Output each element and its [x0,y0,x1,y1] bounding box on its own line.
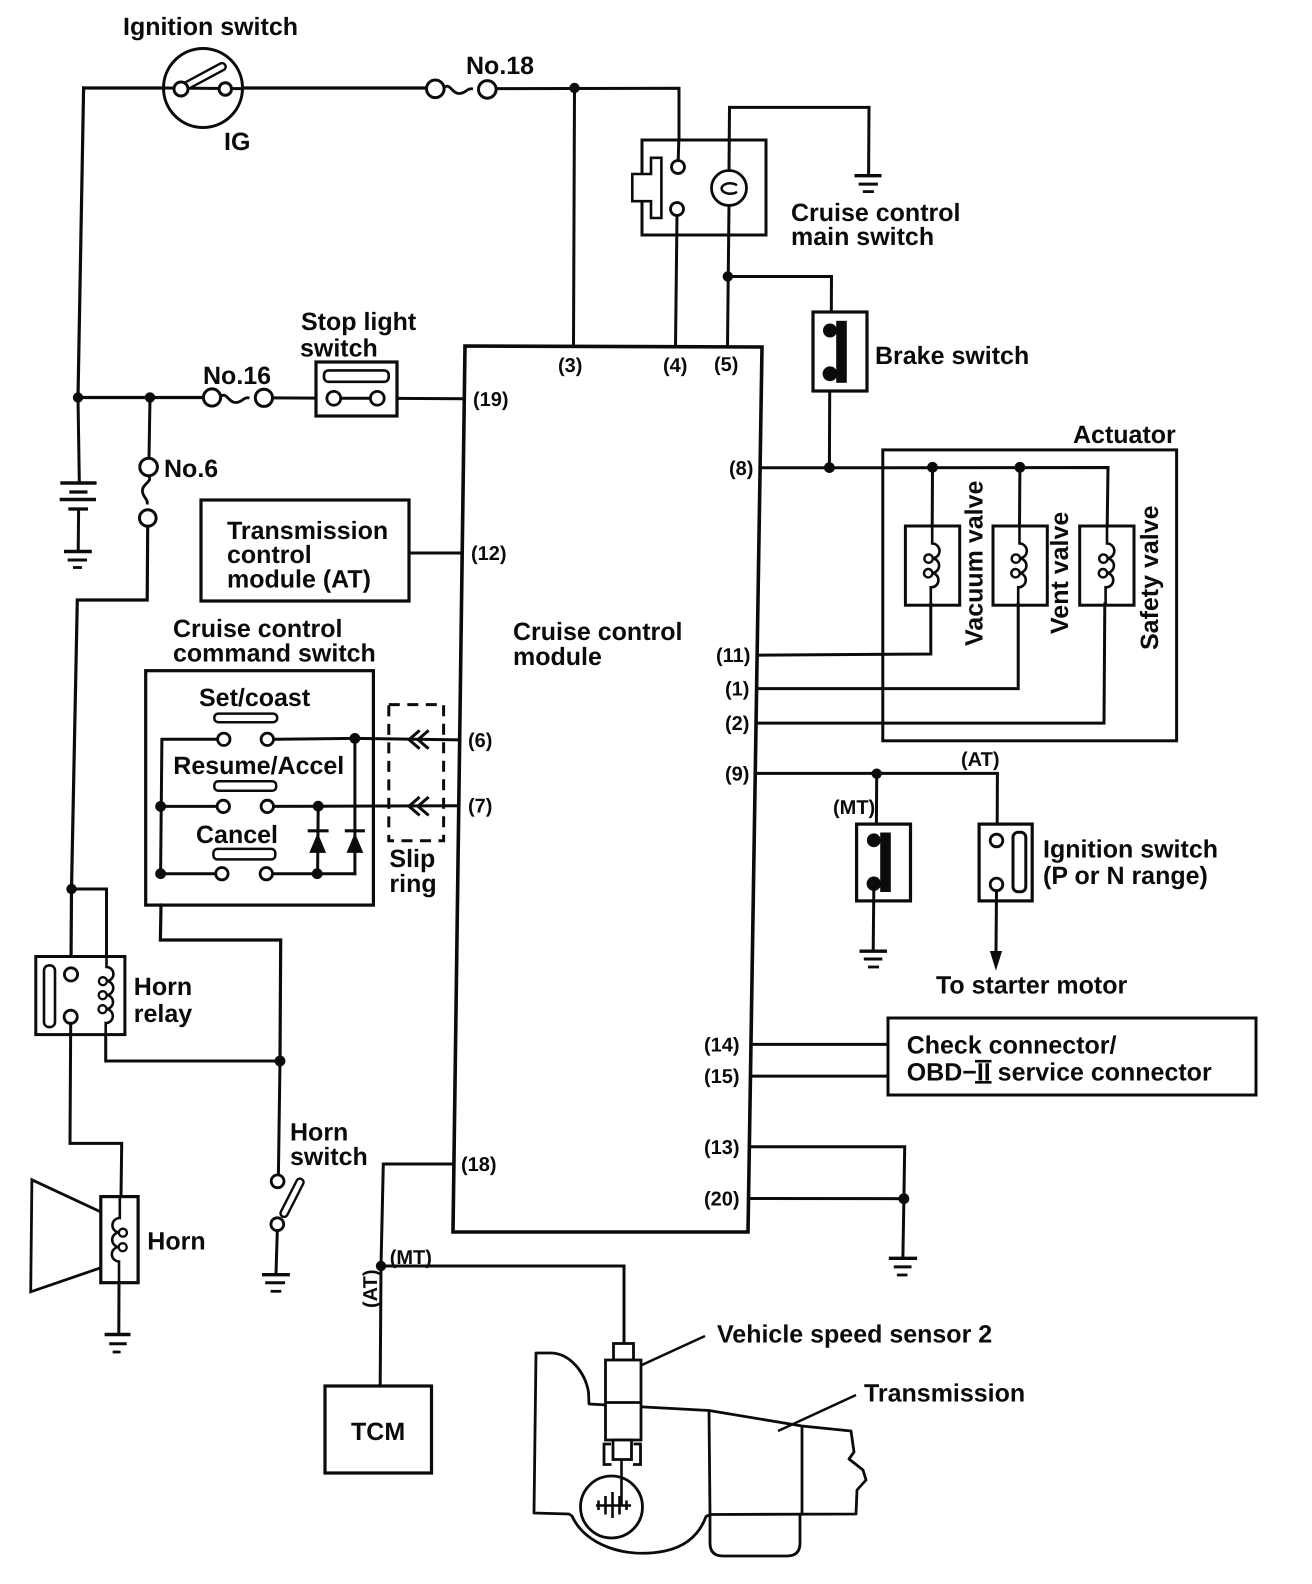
svg-text:relay: relay [134,1000,192,1028]
wire resume/accel row [161,805,224,808]
svg-text:(11): (11) [716,645,750,667]
battery [60,483,97,551]
resume/accel contacts [217,800,229,812]
wire pin 11 to vacuum valve [757,604,931,655]
svg-text:Vehicle speed sensor 2: Vehicle speed sensor 2 [717,1321,992,1349]
wire bus to horn relay contact [69,889,73,968]
svg-text:To starter motor: To starter motor [936,972,1127,1000]
node cancel diode1 junction [312,868,323,879]
vehicle speed sensor body [604,1344,641,1506]
wire vacuum valve feed drop [931,467,934,527]
wire AT branch to TCM [379,1266,383,1386]
wire No.16 row [78,396,204,399]
transmission gear circle [581,1476,643,1538]
transmission oil pan [710,1515,800,1557]
wire MT branch drop [875,774,878,824]
clutch switch (MT) [857,824,911,901]
wire pin 14 [751,1043,888,1046]
node diode1 top junction [313,801,324,812]
svg-text:(3): (3) [558,355,582,377]
node bus cancel junction [155,868,166,879]
wire No.6 branch drop [149,397,150,458]
transmission outline [534,1353,866,1553]
fuse No.16 [203,389,272,407]
node ground junction 13/20 [899,1193,910,1204]
svg-text:Check connector/: Check connector/ [907,1032,1117,1060]
svg-text:(19): (19) [473,389,509,411]
ground horn [105,1335,131,1353]
wire vent valve feed drop [1018,467,1021,527]
wire pin 9 line [755,773,997,824]
svg-text:Set/coast: Set/coast [199,684,311,712]
svg-text:Cruise control: Cruise control [513,618,682,646]
set/coast button cap [214,714,277,723]
gear symbol [596,1492,631,1518]
wire pin 8 line to safety valve [760,468,1108,527]
command switch box [146,671,374,905]
svg-text:(5): (5) [714,354,738,376]
wire lamp to chassis ground [729,107,869,174]
wire left bus vertical [78,88,84,398]
wire pin 3 drop [574,88,575,347]
wire cancel row [161,872,222,875]
transmission control module box [201,500,409,601]
set/coast contacts [218,733,230,745]
svg-text:(13): (13) [704,1137,740,1159]
svg-text:(MT): (MT) [833,797,875,819]
svg-text:Vent valve: Vent valve [1046,512,1074,634]
resume/accel button cap [214,781,276,791]
svg-text:OBD−II service connector: OBD−II service connector [907,1059,1212,1087]
node horn switch junction [275,1056,286,1067]
wire junction to horn switch [278,1061,280,1175]
wire horn switch to ground [276,1231,277,1274]
ground horn switch [262,1275,290,1292]
wire stop light switch to module pin 19 [397,397,464,400]
svg-text:(AT): (AT) [360,1270,382,1309]
ignition switch P or N range [979,824,1032,901]
cruise control module box [453,346,762,1232]
svg-text:No.16: No.16 [203,362,271,390]
wire pin 13 [749,1147,904,1199]
wire battery drop [78,398,79,482]
svg-text:switch: switch [300,335,378,363]
wire to ground [903,1199,904,1257]
svg-text:Ignition switch: Ignition switch [1043,836,1218,864]
svg-text:main switch: main switch [791,223,934,251]
wire fuse No.16 to stop light switch [273,396,317,399]
wire pin 20 [749,1197,904,1200]
node brake switch branch [723,271,733,281]
wire relay coil to horn switch junction [106,1035,280,1061]
svg-text:(9): (9) [725,764,749,786]
svg-text:Brake switch: Brake switch [875,342,1029,370]
svg-text:IG: IG [224,128,250,156]
svg-text:TCM: TCM [351,1418,405,1446]
wire pin 5 drop [728,206,730,348]
svg-text:(4): (4) [663,355,687,377]
wire set/coast row [267,737,355,741]
svg-text:(14): (14) [704,1035,740,1057]
svg-text:Resume/Accel: Resume/Accel [173,752,344,780]
node 18 branch junction [376,1261,386,1271]
svg-text:(1): (1) [725,679,749,701]
svg-text:Cancel: Cancel [196,821,278,849]
wire No.18 fuse to main switch branch corner [496,88,679,161]
svg-text:(2): (2) [725,713,749,735]
ground battery [64,552,92,568]
actuator box [883,450,1177,741]
node left bus / battery junction [73,392,83,402]
svg-text:(15): (15) [704,1066,740,1088]
svg-text:Actuator: Actuator [1073,421,1176,449]
wire pin 18 [381,1164,454,1266]
wire branch to horn relay coil [72,889,107,957]
svg-text:(18): (18) [461,1154,497,1176]
node MT branch on pin 9 [872,769,882,779]
ground pins 13/20 [889,1258,917,1275]
diode D2 [345,738,365,873]
wire relay contact to horn [70,1023,122,1197]
svg-text:Vacuum valve: Vacuum valve [961,481,989,646]
svg-text:(6): (6) [468,730,492,752]
node set/coast to pin 6 junction [350,733,361,744]
node vent valve feed [1015,462,1026,473]
svg-text:Horn: Horn [134,973,192,1001]
wire top feed from left bus to No.18 fuse [84,86,427,89]
svg-text:No.18: No.18 [466,52,534,80]
svg-text:Ignition switch: Ignition switch [123,13,298,41]
node horn relay branch junction [66,884,76,894]
ground main switch [855,176,882,192]
horn relay [36,957,125,1035]
vacuum valve solenoid [905,526,959,605]
wire pin 7 [318,804,459,807]
fuse No.6 [140,458,158,526]
safety valve solenoid [1080,526,1134,605]
diode D1 [308,806,329,874]
svg-text:(20): (20) [704,1189,740,1211]
node No.6 branch junction [145,392,155,402]
svg-text:Transmission: Transmission [864,1380,1025,1408]
stop light switch [316,362,397,416]
wire pin 2 to safety valve [756,604,1105,723]
slip ring chevrons pin 7 [409,798,428,814]
svg-text:(8): (8) [729,458,753,480]
fuse No.18 [427,80,497,98]
svg-text:(12): (12) [471,543,507,565]
wire branch to brake switch [728,277,832,313]
wire brake switch to pin 8 line [828,391,831,468]
wire horn to ground [117,1283,120,1334]
svg-text:(7): (7) [468,796,492,818]
pointer line transmission [778,1395,856,1431]
transmission internal lines [709,1411,710,1515]
svg-text:Stop light: Stop light [301,308,417,336]
wire MT branch to speed sensor [381,1266,624,1346]
ignition switch symbol [164,49,243,128]
node brake junction on pin 8 line [824,462,835,473]
wire pin 12 [409,552,462,555]
vent valve solenoid [993,526,1047,605]
horn speaker [31,1180,138,1292]
wire pin 15 [751,1075,889,1078]
wire pin 4 drop [676,216,678,348]
check connector box [888,1018,1256,1095]
wire clutch switch to ground [872,891,876,950]
svg-text:Safety valve: Safety valve [1136,505,1164,650]
svg-text:command switch: command switch [173,640,376,668]
svg-text:ring: ring [389,870,436,898]
slip ring dashed box [389,705,444,841]
svg-text:(P or N range): (P or N range) [1043,862,1208,890]
svg-text:module: module [513,643,602,671]
svg-text:Slip: Slip [389,845,435,873]
wire to starter motor with arrow [995,891,999,952]
wire No.6 to command switch bus [72,526,148,889]
TCM box [325,1386,432,1473]
svg-text:No.6: No.6 [164,455,218,483]
cruise control main switch [632,140,766,235]
cancel button cap [213,849,275,860]
svg-text:Horn: Horn [147,1228,205,1256]
wire pin 1 to vent valve [757,604,1019,689]
pointer line vehicle speed sensor [633,1336,705,1369]
svg-text:(AT): (AT) [961,749,1000,771]
wire pin 6 [355,738,460,739]
horn switch [271,1175,305,1231]
cancel contacts [216,868,228,880]
node vacuum valve feed [927,462,938,473]
wire command bus to horn circuit [160,905,280,1061]
svg-text:module (AT): module (AT) [227,566,371,594]
svg-text:switch: switch [290,1143,368,1171]
node bus resume junction [155,801,166,812]
slip ring chevrons pin 6 [409,731,428,747]
brake switch [813,312,867,391]
ground clutch switch [860,951,888,967]
node junction No.18 to pin 3 [569,83,579,93]
